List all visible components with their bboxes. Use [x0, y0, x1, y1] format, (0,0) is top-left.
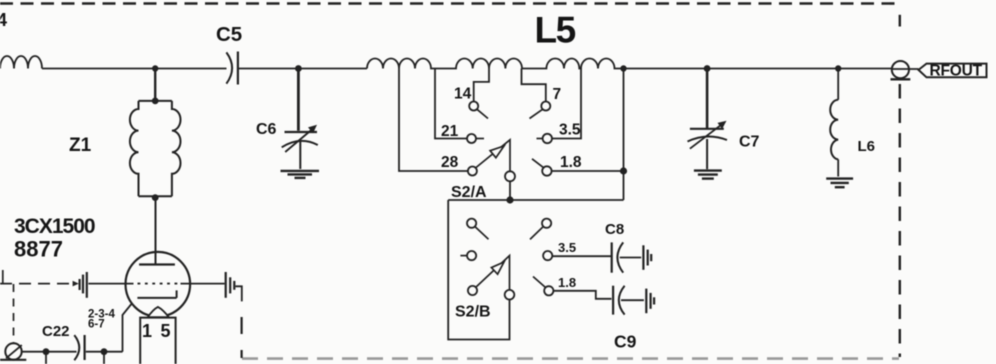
shield box right dashed border — [899, 15, 901, 27]
ground (C7) — [694, 169, 722, 171]
coil L4 (partial, entering at left) — [0, 56, 42, 69]
ground (L6) — [826, 177, 853, 179]
wire L5 end down — [623, 69, 625, 201]
wire junction to L6 — [837, 69, 839, 100]
wire S2/B 1.8 to C9 — [553, 291, 611, 299]
S2/A stub 14 — [477, 109, 488, 118]
hook to shield — [236, 286, 242, 301]
L5 tap to contact 3.5 — [552, 69, 581, 139]
switch S2/A contact 7 — [541, 102, 550, 111]
ground (C6) — [281, 170, 320, 172]
wire Z1 to tube plate — [155, 198, 157, 265]
svg-text:Z1: Z1 — [69, 135, 92, 156]
L5 tap to contact 21 — [435, 69, 467, 139]
svg-text:4: 4 — [0, 10, 7, 30]
switch S2/B pole — [505, 290, 515, 300]
switch S2/A contact 28 — [468, 167, 477, 176]
svg-text:C22: C22 — [42, 323, 70, 340]
RFOUT feedthrough connector — [892, 61, 909, 78]
wire C5 to L5 — [239, 68, 368, 70]
C7 arrow head — [718, 121, 727, 129]
svg-text:21: 21 — [441, 123, 459, 140]
wire junction to C6 — [297, 69, 300, 131]
wire S2 pole bus — [448, 199, 623, 201]
switch S2/B contact top-right — [542, 219, 551, 228]
S2/A stub 21 — [476, 138, 484, 140]
S2/A wiper arrow — [490, 146, 504, 158]
svg-text:14: 14 — [454, 86, 472, 103]
tube cathode — [137, 290, 176, 298]
svg-text:C7: C7 — [739, 134, 760, 151]
svg-text:C6: C6 — [256, 121, 277, 138]
svg-text:1.8: 1.8 — [558, 275, 576, 290]
tube plate — [139, 263, 175, 265]
dash-dot line grid left — [0, 283, 72, 285]
switch S2/B contact mid-left — [467, 251, 476, 260]
svg-text:RFOUT: RFOUT — [930, 63, 983, 80]
wire junction to C7 — [706, 69, 709, 129]
wire L4 to C5 — [42, 68, 227, 70]
svg-text:3CX1500: 3CX1500 — [14, 215, 95, 238]
tube pinch seal — [148, 307, 169, 317]
svg-text:S2/B: S2/B — [455, 303, 491, 320]
wire main to Z1 — [154, 69, 156, 101]
svg-text:1.8: 1.8 — [560, 154, 582, 171]
wire S2/B pole loop — [448, 200, 509, 340]
S2/B stub top-right — [530, 227, 543, 240]
svg-text:8877: 8877 — [14, 237, 63, 262]
switch S2/B contact top-left — [467, 219, 476, 228]
shield box short left dashed edge — [241, 317, 243, 334]
S2/B stub top-left — [475, 227, 489, 240]
wire S2/B 3.5 to C8 — [552, 255, 611, 257]
RFOUT tag — [919, 64, 987, 78]
svg-text:C5: C5 — [216, 23, 242, 46]
shield box bottom dashed border — [242, 357, 899, 360]
wire S2/A pole down — [509, 181, 511, 200]
grid bypass bars left — [78, 279, 80, 290]
tube grid (dashed) — [138, 283, 180, 285]
capacitor C5 — [226, 52, 232, 83]
grid bypass bars right — [225, 272, 227, 298]
dash-dot line down — [13, 284, 15, 343]
switch S2/B contact bottom-left — [468, 286, 477, 295]
svg-text:6-7: 6-7 — [88, 319, 105, 331]
junction dots — [152, 65, 158, 71]
svg-text:3.5: 3.5 — [559, 122, 581, 139]
svg-text:L5: L5 — [535, 10, 576, 51]
svg-text:C8: C8 — [605, 221, 624, 238]
svg-text:7: 7 — [553, 86, 562, 103]
variable capacitor C7 — [690, 128, 724, 130]
S2/B stub 1.8 — [533, 277, 545, 288]
svg-text:3.5: 3.5 — [558, 240, 576, 255]
wire L5 to C7 to L6 to RFOUT — [624, 68, 893, 70]
arrow on grid line — [73, 281, 79, 287]
capacitor C22 — [74, 335, 79, 360]
switch S2/A contact 21 — [467, 134, 476, 143]
shield box top dashed border — [0, 2, 897, 5]
svg-text:L6: L6 — [858, 138, 876, 155]
S2/B wiper — [476, 256, 510, 290]
svg-text:28: 28 — [441, 154, 459, 171]
switch S2/A contact 3.5 — [543, 134, 552, 143]
tube V1 envelope — [126, 252, 191, 317]
cathode bottom wire — [22, 351, 77, 353]
L5 tap to contact 14 — [474, 69, 489, 102]
S2/B stub mid-left — [460, 255, 467, 257]
input connector J — [5, 343, 21, 359]
ground (C8) — [642, 245, 644, 269]
switch S2/B contact 3.5 — [543, 251, 552, 260]
parasitic suppressor Z1 — [139, 100, 172, 102]
L5 tap to contact 28 — [399, 69, 468, 172]
svg-text:S2/A: S2/A — [451, 184, 487, 201]
grid wire left — [88, 283, 133, 285]
svg-text:C9: C9 — [614, 332, 637, 352]
tube base box — [140, 318, 175, 364]
svg-text:5: 5 — [161, 321, 171, 341]
C6 arrow head — [308, 125, 317, 133]
ground (C9) — [645, 289, 647, 314]
S2/A stub 7 — [530, 109, 543, 118]
S2/B wiper arrow — [491, 262, 504, 274]
inductor L6 — [830, 100, 838, 160]
S2/A stub 1.8 — [532, 159, 544, 168]
variable capacitor C6 — [285, 131, 318, 133]
svg-text:1: 1 — [142, 321, 152, 341]
S2/A stub 3.5 — [537, 138, 543, 140]
wire stub left edge — [2, 270, 4, 284]
grid wire right — [181, 283, 225, 285]
S2/A wiper — [476, 140, 510, 172]
switch S2/A contact 1.8 — [542, 166, 551, 175]
capacitor C9 — [612, 286, 614, 315]
switch S2/B contact 1.8 — [544, 286, 553, 295]
switch S2/A contact 14 — [469, 102, 478, 111]
capacitor C8 — [611, 242, 613, 272]
switch S2/A pole — [505, 171, 515, 181]
wire contact 1.8 to node — [552, 170, 624, 172]
inductor L5 winding — [367, 58, 624, 68]
wire to cathode — [123, 304, 132, 352]
L5 tap to contact 7 — [522, 69, 546, 102]
